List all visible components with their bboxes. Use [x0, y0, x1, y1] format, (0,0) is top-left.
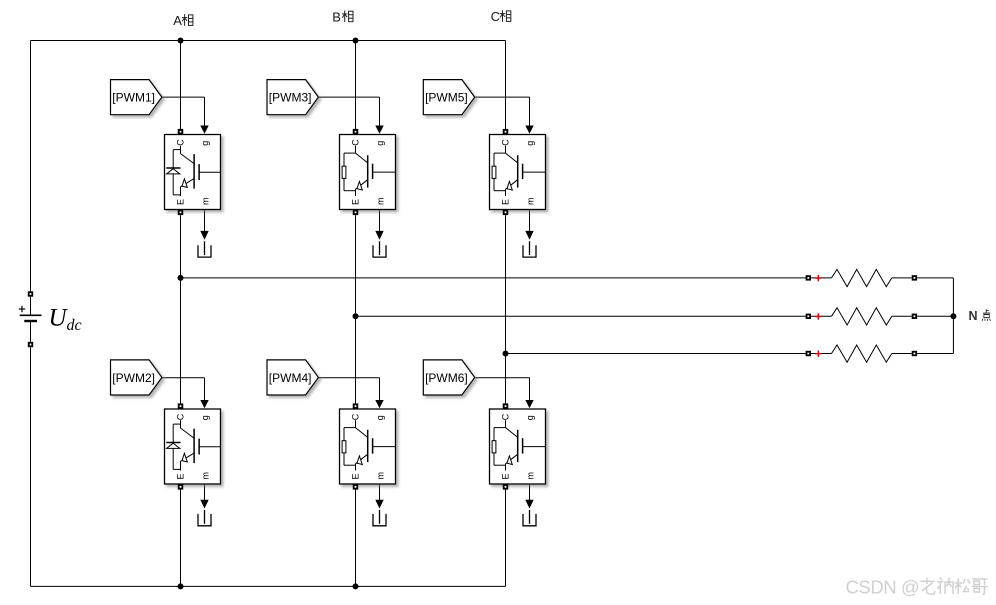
terminator — [373, 241, 386, 257]
node label B相 — [332, 9, 353, 24]
node label A相 — [173, 13, 193, 28]
From tag [PWM3] — [267, 80, 318, 115]
wire: m output of lower IGBT col 1 — [204, 484, 206, 500]
wire: m output of lower IGBT col 2 — [379, 484, 381, 500]
From tag [PWM4] — [267, 360, 318, 395]
wire: PWM3 gate signal — [318, 96, 379, 98]
IGBT block Q5 (IGBT) — [490, 129, 546, 215]
svg-text:[PWM5]: [PWM5] — [425, 91, 468, 105]
resistor RC load — [806, 345, 918, 362]
IGBT block Q3 (IGBT) — [340, 129, 396, 215]
node junction dot 2 — [353, 38, 359, 44]
wire: m output of lower IGBT col 3 — [529, 484, 531, 500]
node label C相 — [491, 9, 511, 24]
terminator — [523, 510, 536, 526]
terminator — [523, 241, 536, 257]
terminator — [198, 510, 211, 526]
terminator — [198, 241, 211, 257]
IGBT block Q6 (IGBT) — [490, 403, 546, 489]
svg-text:C: C — [491, 9, 500, 24]
node junction dot 1 — [178, 38, 184, 44]
wire: PWM5 gate signal — [475, 96, 530, 98]
node junction dot 5 — [503, 351, 509, 357]
svg-text:[PWM2]: [PWM2] — [112, 371, 155, 385]
wire: PWM2 gate signal — [162, 377, 205, 379]
From tag [PWM5] — [423, 80, 474, 115]
svg-text:dc: dc — [67, 317, 82, 334]
svg-text:[PWM3]: [PWM3] — [269, 91, 312, 105]
wire: resistor outputs to N point vertical — [31, 40, 506, 42]
svg-text:U: U — [49, 305, 69, 332]
terminator — [373, 510, 386, 526]
svg-text:A: A — [173, 13, 182, 28]
node junction dot 7 — [353, 583, 359, 589]
resistor RA load — [806, 269, 918, 286]
IGBT block Q4 (IGBT) — [340, 403, 396, 489]
node label N点 — [969, 309, 991, 323]
node junction dot 6 — [178, 583, 184, 589]
wire: m output of upper IGBT col 3 — [529, 210, 531, 232]
node junction dot 8 — [950, 313, 956, 319]
svg-text:N: N — [969, 309, 978, 323]
From tag [PWM6] — [423, 360, 474, 395]
wire: PWM4 gate signal — [318, 377, 379, 379]
svg-text:[PWM4]: [PWM4] — [269, 371, 312, 385]
watermark CSDN @老衲松哥 — [846, 577, 988, 598]
From tag [PWM2] — [111, 360, 162, 395]
svg-text:B: B — [332, 9, 341, 24]
wire: PWM6 gate signal — [475, 377, 530, 379]
DC voltage source Udc — [19, 291, 42, 347]
svg-text:[PWM1]: [PWM1] — [112, 91, 155, 105]
IGBT block Q2 (IGBT/Diode) — [165, 403, 221, 489]
resistor RB load — [806, 308, 918, 325]
wire: m output of upper IGBT col 2 — [379, 210, 381, 232]
node junction dot 4 — [353, 313, 359, 319]
wire: PWM1 gate signal — [162, 96, 205, 98]
svg-text:[PWM6]: [PWM6] — [425, 371, 468, 385]
From tag [PWM1] — [111, 80, 162, 115]
node junction dot 3 — [178, 275, 184, 281]
IGBT block Q1 (IGBT/Diode) — [165, 129, 221, 215]
svg-text:CSDN @: CSDN @ — [846, 577, 920, 598]
wire: m output of upper IGBT col 1 — [204, 210, 206, 232]
